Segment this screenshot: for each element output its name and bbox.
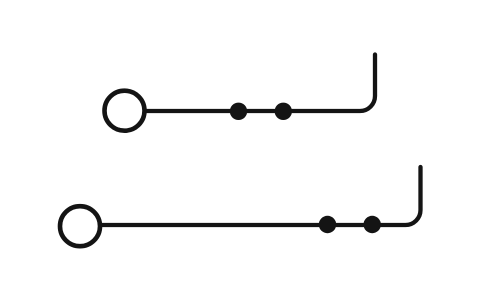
wire upper: horizontal conductor with bend up at right [147,55,375,112]
junction dot upper-left [230,103,247,120]
terminal contact circle T1 (upper level) [105,91,145,131]
junction dot lower-left [319,216,336,233]
terminal contact circle T2 (lower level) [60,206,100,246]
junction dot lower-right [364,216,381,233]
wire lower: horizontal conductor with bend up at right [102,167,420,225]
junction dot upper-right [275,103,292,120]
